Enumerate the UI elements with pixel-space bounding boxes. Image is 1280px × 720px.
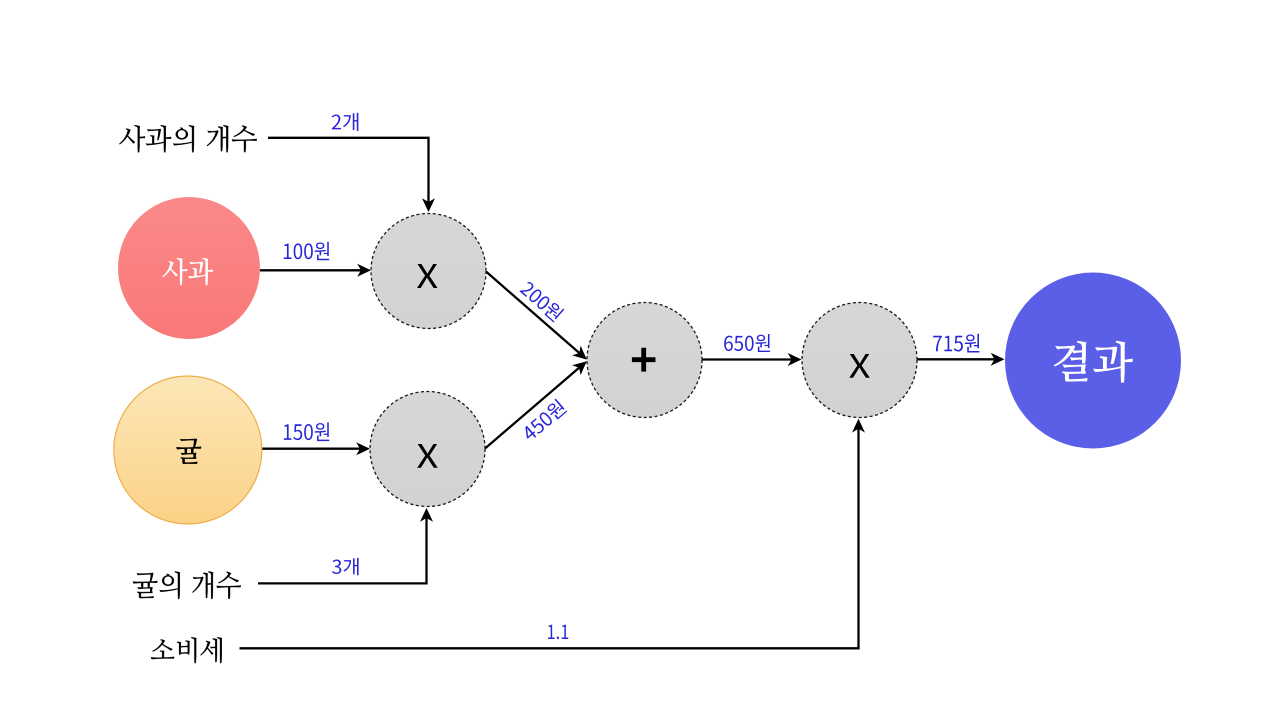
node X3 multiply (dashed gray circle) xyxy=(802,303,917,418)
value label 450원 on X2-plus wire xyxy=(520,398,568,442)
label 소비세 (consumption tax) xyxy=(151,637,222,663)
operator label X in node X2 xyxy=(417,444,438,468)
operator label + in node plus xyxy=(632,348,656,372)
wire tax to node X3 (elbow up) xyxy=(240,428,859,648)
value label 200원 on X1-plus wire xyxy=(519,279,565,322)
wire node X1 to node plus xyxy=(486,272,580,354)
value label 3개 on tangerine-count wire xyxy=(332,558,359,575)
node X2 multiply (dashed gray circle) xyxy=(370,392,485,507)
wire tangerine-count to node X2 (elbow up) xyxy=(258,517,427,583)
wire node X2 to node plus xyxy=(485,367,580,448)
operator label X in node X3 xyxy=(849,354,870,378)
node plus add (dashed gray circle) xyxy=(587,303,702,418)
text 결과 (result) in blue node xyxy=(1054,341,1133,383)
wire apple-count to node X1 (elbow down) xyxy=(268,138,429,203)
node result (blue circle) xyxy=(1005,273,1181,449)
node apple (red circle) xyxy=(118,197,260,339)
node tangerine (yellow circle) xyxy=(114,376,262,524)
label 귤의 개수 (tangerine count) xyxy=(133,571,241,599)
value label 650원 on plus-X3 wire xyxy=(724,334,770,352)
value label 715원 on X3-result wire xyxy=(933,334,979,353)
value label 2개 on apple-count wire xyxy=(332,113,359,131)
wire node plus to node X3 xyxy=(702,358,792,360)
wire tangerine to node X2 xyxy=(262,448,361,450)
value label 100원 on apple wire xyxy=(284,242,329,260)
text 사과 (apple) in red node xyxy=(162,258,213,285)
value label 1.1 on tax wire xyxy=(548,625,568,639)
operator label X in node X1 xyxy=(417,264,438,288)
node X1 multiply (dashed gray circle) xyxy=(371,214,486,329)
label 사과의 개수 (apple count) xyxy=(119,125,257,152)
wire node X3 to result xyxy=(917,358,995,360)
value label 150원 on tangerine wire xyxy=(284,422,329,441)
wire apple to node X1 xyxy=(260,269,362,271)
text 귤 (tangerine) in yellow node xyxy=(176,438,201,464)
